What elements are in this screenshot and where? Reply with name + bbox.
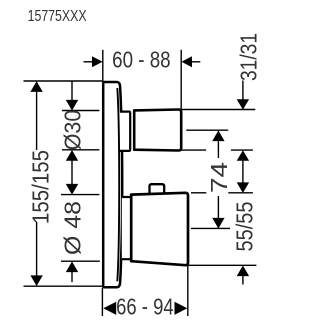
extension line: 60-88 right vertical: [180, 50, 182, 111]
dimension line: 74 upper segment: [217, 140, 219, 158]
lower handle body: [131, 193, 188, 265]
arrowhead: O48 top (points down): [66, 184, 78, 195]
arrowhead: O30 top (points down): [66, 100, 78, 111]
extension line: body top right segment a: [191, 192, 206, 194]
dimension tail: 60-88 right: [192, 61, 201, 63]
arrowhead: O30 bottom (points up): [66, 150, 78, 161]
arrowhead: 74 top (points up): [212, 130, 224, 141]
svg-text:Ø 48: Ø 48: [59, 201, 85, 255]
arrow connector: 31/31 bottom to 55/55 top: [242, 160, 244, 184]
dimension line: 74 lower segment: [217, 196, 219, 228]
svg-text:Ø30: Ø30: [59, 110, 85, 151]
extension line: grip bottom right segment b: [231, 149, 253, 151]
arrowhead: 66-94 right (points right): [175, 302, 188, 315]
svg-text:31/31: 31/31: [236, 33, 262, 81]
arrowhead: 31/31 bottom (points up): [237, 150, 249, 161]
svg-text:15775XXX: 15775XXX: [28, 8, 87, 25]
extension line: plate bottom (155/155 lower ref): [24, 285, 103, 287]
arrowhead: 155/155 top (points up): [30, 81, 42, 92]
extension line: body top left (O48 upper ref): [61, 194, 99, 196]
extension line: 60-88 left vertical: [102, 50, 104, 82]
upper handle sleeve: [120, 112, 130, 151]
svg-text:60 - 88: 60 - 88: [112, 47, 171, 73]
svg-text:155/155: 155/155: [27, 150, 53, 224]
svg-text:74: 74: [206, 162, 232, 193]
extension line: 66-94 left vertical: [101, 288, 103, 316]
arrow tail: O30 top from plate-top ref: [71, 81, 73, 101]
extension line: body bottom left (O48 lower ref): [61, 260, 100, 262]
leader: 31/31 text to arrow: [242, 81, 244, 101]
upper handle grip: [134, 110, 181, 151]
extension line: grip bottom left (O30 lower ref): [62, 149, 99, 151]
arrowhead: 60-88 right (points left): [181, 56, 192, 67]
arrowhead: 31/31 (points down): [237, 99, 249, 110]
arrowhead: 74 bottom (points down): [212, 218, 224, 229]
dimension line: 155/155 lower segment: [36, 222, 38, 278]
svg-text:55/55: 55/55: [232, 202, 258, 252]
extension line: grip top right (31/31 ref): [181, 109, 255, 111]
arrow connector: O30 bottom to O48 top: [71, 160, 73, 186]
arrow tail: O48 bottom: [71, 271, 73, 282]
plate inner dome seam arc: [117, 88, 119, 281]
lower handle index tab: [150, 184, 165, 194]
arrowhead: 66-94 left (points left): [103, 302, 116, 315]
extension line: grip bottom right segment a: [181, 149, 206, 151]
arrowhead: O48 bottom (points up): [66, 261, 78, 272]
extension line: body top right segment b: [228, 192, 253, 194]
arrow tail: 55/55 bottom: [242, 275, 244, 285]
lower handle sleeve: [122, 197, 131, 259]
dimension line: 155/155 upper segment: [36, 90, 38, 150]
extension line: plate top (155/155 upper ref): [24, 80, 103, 82]
extension line: grip top left (O30 upper ref): [62, 110, 99, 112]
centerline: lower handle (74 lower ref): [191, 227, 230, 229]
svg-text:66 - 94: 66 - 94: [116, 294, 174, 320]
extension line: body bottom right (55/55 ref): [188, 264, 256, 266]
centerline: upper handle (74 upper ref): [186, 129, 228, 131]
arrowhead: 155/155 bottom (points down): [30, 275, 42, 286]
arrowhead: 55/55 top (points down): [237, 182, 249, 193]
arrowhead: 60-88 left (points right): [92, 56, 103, 67]
escutcheon plate outline: [103, 82, 122, 287]
extension line: 66-94 right vertical: [187, 266, 189, 316]
arrowhead: 55/55 bottom (points up): [237, 266, 249, 277]
dimension tail: 60-88 left: [84, 61, 93, 63]
